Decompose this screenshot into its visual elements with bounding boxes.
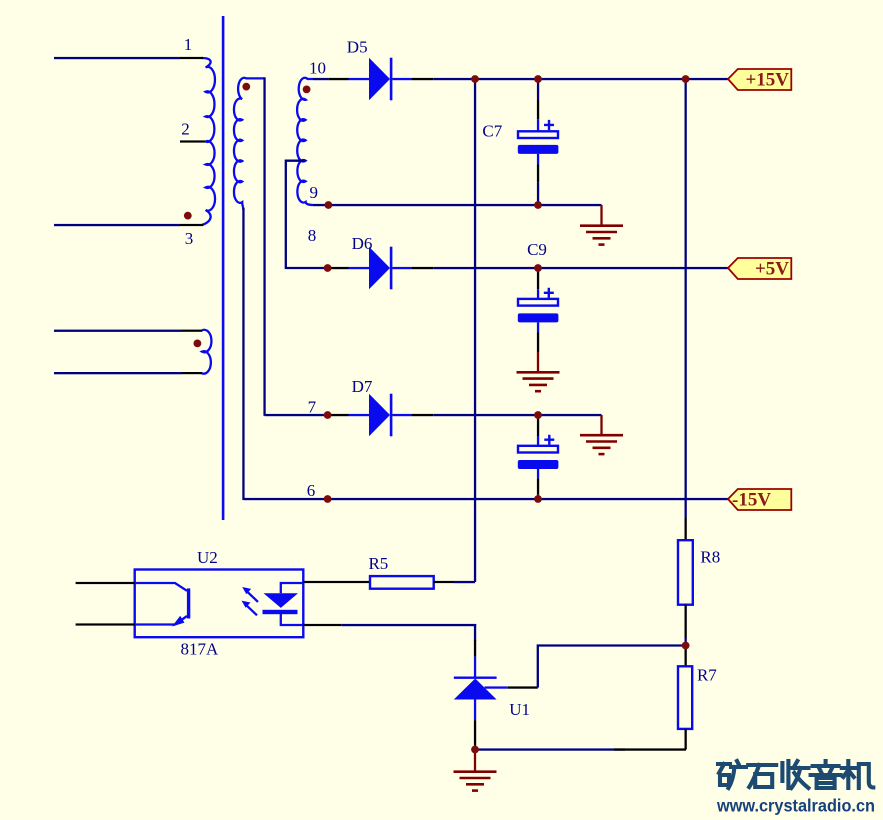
- wire feedback top to left edge: [54, 330, 182, 332]
- pin 8 black stub: [328, 267, 348, 269]
- D5 right black stub: [412, 78, 433, 80]
- C9 bottom plate: [518, 313, 559, 322]
- svg-text:2: 2: [181, 120, 190, 139]
- capacitor C9: [518, 268, 559, 352]
- svg-text:R5: R5: [368, 554, 388, 573]
- wire +15V rail row y=79: [313, 78, 328, 80]
- U2 phototransistor: [135, 583, 187, 625]
- char shou: [782, 761, 808, 788]
- primary polarity dot: [184, 212, 192, 220]
- secondary winding polarity dot: [303, 86, 311, 94]
- char shi: [748, 765, 776, 787]
- diode D5: [349, 58, 413, 101]
- svg-text:D5: D5: [347, 38, 368, 57]
- cap bottom lead: [537, 469, 539, 478]
- C7 top plate: [518, 131, 558, 138]
- svg-text:C7: C7: [482, 121, 502, 140]
- U1 reference lead: [485, 686, 508, 688]
- wire pin 9 row y=205: [313, 204, 602, 206]
- pin 3 lead (black stub): [180, 224, 203, 226]
- transformer core: [222, 16, 225, 520]
- wire middle winding top to pin7 column: [263, 77, 265, 416]
- wire tap pin8 from winding: [286, 161, 330, 268]
- wire +5V row y=268: [328, 267, 330, 269]
- wire D6 to +5V port: [433, 267, 728, 269]
- wire feedback bottom to left edge: [54, 372, 182, 374]
- U2 transistor base bar: [187, 588, 190, 618]
- C9 top lead: [537, 268, 539, 271]
- C7 plus sign: [544, 120, 554, 130]
- wire pin1 to left edge: [54, 57, 180, 59]
- resistor R5: [303, 576, 475, 589]
- wire D5 to +15V port: [433, 78, 728, 80]
- C9 bottom lead: [537, 322, 539, 332]
- D6 right black stub: [412, 267, 433, 269]
- capacitor C8 (unnamed, pin7-pin6): [518, 415, 559, 499]
- C7 bottom lead: [537, 154, 539, 165]
- transformer middle winding (pins 7/6 side): [234, 78, 265, 210]
- svg-text:U2: U2: [197, 548, 218, 567]
- resistor R7: [678, 646, 692, 750]
- feedback winding top lead (black stub): [182, 330, 202, 332]
- svg-text:C9: C9: [527, 240, 547, 259]
- diode D7: [349, 394, 413, 437]
- char yin: [811, 761, 841, 788]
- U2 emitter arrow: [172, 616, 185, 627]
- power port +5V: [728, 258, 791, 280]
- feedback winding polarity dot: [194, 340, 202, 348]
- feedback winding bottom lead (black stub): [182, 372, 202, 374]
- ground below C9: [517, 352, 560, 391]
- power port -15V: [728, 489, 791, 511]
- svg-text:10: 10: [309, 59, 326, 78]
- svg-text:-15V: -15V: [732, 490, 771, 511]
- ground pin9 row: [580, 205, 623, 245]
- svg-text:+15V: +15V: [745, 70, 789, 91]
- svg-text:3: 3: [185, 229, 194, 248]
- wire vertical rail x=685.6 (+15V to R8): [685, 79, 687, 518]
- wire pin 6 / -15V row y=499: [243, 498, 728, 500]
- wire vertical rail x=475 (+15V to R5): [474, 79, 476, 582]
- svg-text:8: 8: [308, 226, 317, 245]
- svg-text:D7: D7: [352, 377, 373, 396]
- U2 left wires (black): [76, 582, 135, 584]
- wire pin3 to left edge: [54, 224, 180, 226]
- ground pin7 row: [580, 415, 623, 454]
- black wire bottom near R7: [614, 748, 686, 750]
- svg-text:817A: 817A: [181, 640, 220, 659]
- cap bottom plate: [518, 460, 559, 469]
- pin 7 black stub: [328, 414, 348, 416]
- svg-text:7: 7: [308, 398, 317, 417]
- svg-text:D6: D6: [352, 234, 373, 253]
- svg-text:+5V: +5V: [755, 259, 789, 280]
- D7 right black stub: [412, 414, 433, 416]
- resistor R8: [678, 518, 693, 646]
- cap top lead: [537, 415, 539, 417]
- capacitor C7: [518, 79, 559, 205]
- svg-text:9: 9: [310, 183, 319, 202]
- shunt regulator U1: [454, 640, 538, 750]
- watermark chinese characters: [718, 761, 873, 788]
- transformer feedback winding (bottom-left): [202, 330, 212, 374]
- wire U2 lower right to U1: [303, 624, 476, 641]
- pin 2 lead (black stub): [180, 140, 205, 142]
- char ji: [842, 761, 874, 788]
- wire D7 to ground corner: [433, 414, 601, 416]
- char kuang: [718, 761, 746, 788]
- U2 LED: [263, 583, 304, 625]
- svg-text:R7: R7: [697, 666, 717, 685]
- optocoupler U2 box: [135, 570, 304, 638]
- svg-text:1: 1: [184, 35, 193, 54]
- pin 1 lead (black stub): [180, 57, 203, 59]
- C7 top lead: [537, 79, 539, 100]
- transformer secondary winding pins 10-9: [297, 78, 313, 205]
- C7 bottom plate: [518, 145, 559, 154]
- U2 light arrows: [242, 587, 259, 615]
- svg-text:6: 6: [307, 481, 316, 500]
- cap top plate: [518, 446, 558, 453]
- ground below U1: [454, 750, 497, 791]
- middle winding polarity dot: [242, 83, 250, 91]
- cap plus sign: [544, 435, 554, 445]
- diode D6: [349, 247, 413, 290]
- transformer primary winding pins 1-2-3: [202, 58, 215, 225]
- pin 10 black stub: [328, 78, 348, 80]
- svg-text:www.crystalradio.cn: www.crystalradio.cn: [716, 796, 875, 816]
- wire pin 7 row y=415: [265, 414, 329, 416]
- C9 plus sign: [544, 288, 554, 298]
- wire U1 ref jog up to R8/R7 node: [538, 646, 685, 688]
- svg-text:R8: R8: [700, 548, 720, 567]
- C9 top plate: [518, 299, 558, 306]
- svg-text:U1: U1: [509, 700, 530, 719]
- power port +15V: [728, 69, 791, 91]
- wire bottom row R7 to U1 ground: [475, 748, 625, 750]
- wire middle winding bottom to pin6 row: [242, 208, 244, 500]
